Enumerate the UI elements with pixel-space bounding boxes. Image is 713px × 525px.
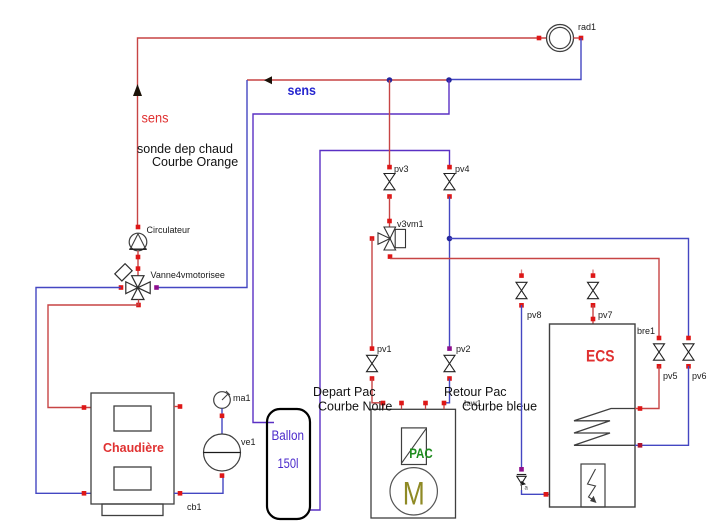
svg-text:PAC: PAC <box>409 445 433 461</box>
wire pv5 to coil top (red) <box>635 366 659 409</box>
wire pv3 drop (red from dot A) <box>389 80 391 167</box>
svg-text:ma1: ma1 <box>233 393 251 403</box>
wire v3vm1 left port down to pv1 (red) <box>371 239 373 350</box>
svg-text:pv1: pv1 <box>377 344 392 354</box>
wire v3vm1 bottom to pv5 (red) <box>390 259 659 339</box>
svg-text:pv2: pv2 <box>456 344 471 354</box>
mixing valve v3vm1 <box>378 227 406 250</box>
wire ECS cold header (blue right then down to pv6) <box>450 239 689 339</box>
PAC motor M <box>390 468 437 515</box>
check valve under pv8 <box>517 475 526 484</box>
svg-text:rad1: rad1 <box>578 22 596 32</box>
node ECS bottom-left port <box>544 492 549 497</box>
svg-text:Chaudière: Chaudière <box>103 440 164 455</box>
svg-text:bre1: bre1 <box>637 326 655 336</box>
wire pv4 header (violet: ballon bottom up to pv4) <box>310 151 450 511</box>
wire boiler bottom-left to 4way left port (blue) <box>36 288 121 494</box>
valve pv8 <box>516 282 527 298</box>
wire sens header (red with left arrow) <box>247 79 449 81</box>
radiator rad1 <box>547 25 574 52</box>
wire pv4 down to pv2 (blue) <box>449 197 451 350</box>
expansion vessel ve1 <box>204 434 241 471</box>
valve pv7 <box>588 282 599 298</box>
node radiator right square <box>579 36 584 41</box>
node junction dot B <box>446 77 452 83</box>
wire ballon feed (violet: from dot B down, left, down to ballon) <box>253 80 449 423</box>
ECS coil heat exchanger <box>574 409 635 446</box>
svg-text:v3vm1: v3vm1 <box>397 219 424 229</box>
svg-text:ECS: ECS <box>586 348 615 366</box>
node junction dot C <box>447 236 453 242</box>
svg-text:Courbe bleue: Courbe bleue <box>462 400 537 414</box>
svg-text:150l: 150l <box>278 456 299 471</box>
arrow left on sens header <box>264 76 272 84</box>
valve pv1 <box>367 355 378 371</box>
svg-text:Retour Pac: Retour Pac <box>444 385 507 399</box>
svg-text:Ballon: Ballon <box>272 428 305 443</box>
4-way valve Vanne4vmotorisee <box>115 264 150 300</box>
wire radiator right stub (red) <box>574 37 582 39</box>
svg-text:pv8: pv8 <box>527 310 542 320</box>
valve pv6 <box>683 344 694 360</box>
ECS electric heater <box>581 464 605 507</box>
svg-text:Courbe Orange: Courbe Orange <box>152 155 238 169</box>
boiler Chaudiere <box>91 393 174 516</box>
svg-text:ve1: ve1 <box>241 437 256 447</box>
buffer tank Ballon 150l <box>267 409 310 519</box>
svg-text:M: M <box>403 476 425 512</box>
arrow up on supply riser <box>133 84 142 96</box>
svg-text:cb1: cb1 <box>187 502 202 512</box>
PAC exchanger symbol <box>402 428 427 465</box>
wire pv6 to coil bottom (blue) <box>635 366 689 445</box>
svg-text:Depart Pac: Depart Pac <box>313 385 376 399</box>
wire gauge to vessel (blue) <box>221 409 223 435</box>
valve pv2 <box>444 355 455 371</box>
wire check valve to ECS bottom-left (blue) <box>522 490 550 494</box>
node junction dot A <box>387 77 393 83</box>
wire pv8 down to check valve (blue) <box>521 305 523 470</box>
svg-text:sonde dep chaud: sonde dep chaud <box>137 142 233 156</box>
svg-text:pv5: pv5 <box>663 371 678 381</box>
svg-text:pv7: pv7 <box>598 310 613 320</box>
valve pv3 <box>384 174 395 190</box>
wire boiler bottom-right to expansion vessel (blue) <box>174 476 223 493</box>
svg-text:sens: sens <box>288 82 317 98</box>
svg-text:sens: sens <box>142 110 169 126</box>
PAC top stubs <box>383 403 444 409</box>
wire pump to 4-way valve (red) <box>137 251 139 276</box>
wire pv7 to ECS top (red) <box>592 305 594 324</box>
valve pv4 <box>444 174 455 190</box>
pump Circulateur <box>136 225 141 230</box>
wire pv2 to PAC stub4 (blue) <box>444 379 450 403</box>
wire sens corner down to 4-way valve right port (blue) <box>157 80 248 288</box>
node boiler right-top stub <box>178 404 183 409</box>
wire radiator return (blue, down then left) <box>449 38 581 80</box>
wire pv1 to PAC stub1 (red) <box>372 379 383 403</box>
wire boiler supply riser (red, x=137.5 up then right to radiator) <box>138 38 547 226</box>
svg-text:pv3: pv3 <box>394 164 409 174</box>
svg-text:Circulateur: Circulateur <box>147 225 191 235</box>
node supply corner square at radiator left <box>537 36 542 41</box>
wire 4way bottom to boiler top-left (red) <box>48 300 139 408</box>
svg-text:pv4: pv4 <box>455 164 470 174</box>
wire pv3 to v3vm1 (red) <box>389 197 391 228</box>
heat pump PAC box <box>371 409 456 518</box>
hot water tank ECS <box>550 324 636 507</box>
svg-text:Courbe Noire: Courbe Noire <box>318 400 392 414</box>
svg-text:pv6: pv6 <box>692 371 707 381</box>
valve pv5 <box>654 344 665 360</box>
gauge ma1 <box>214 392 231 409</box>
svg-text:Vanne4vmotorisee: Vanne4vmotorisee <box>151 270 225 280</box>
